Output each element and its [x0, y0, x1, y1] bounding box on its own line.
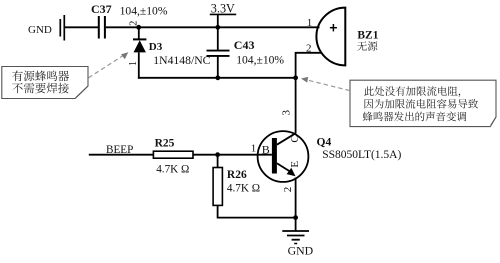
- svg-text:B: B: [262, 143, 270, 157]
- wire emitter vertical: [295, 178, 297, 218]
- wire collector vertical: [295, 78, 297, 134]
- svg-text:1N4148/NC: 1N4148/NC: [153, 54, 210, 67]
- svg-text:Q4: Q4: [317, 137, 332, 149]
- svg-text:GND: GND: [28, 24, 52, 36]
- node emitter/ground junction: [293, 215, 298, 220]
- resistor R25: [153, 151, 193, 158]
- svg-text:4.7K Ω: 4.7K Ω: [156, 163, 189, 175]
- capacitor C37: [99, 16, 105, 39]
- node collector junction: [293, 75, 298, 80]
- svg-text:C37: C37: [91, 2, 112, 16]
- svg-text:2: 2: [128, 21, 139, 26]
- svg-text:R25: R25: [155, 137, 175, 149]
- svg-text:R26: R26: [227, 169, 247, 181]
- capacitor C43: [207, 51, 230, 56]
- callout note left box: [2, 67, 88, 99]
- transistor Q4: [258, 131, 309, 182]
- BZ1 value CJK wu-yuan (passive): [357, 41, 367, 50]
- node 3.3V junction: [215, 25, 220, 30]
- svg-text:4.7K Ω: 4.7K Ω: [227, 183, 260, 195]
- wire middle rail D3 to Q4 collector branch: [138, 77, 296, 79]
- wire buzzer pin 2: [296, 53, 322, 78]
- node R26 junction: [215, 152, 220, 157]
- callout note right box: [350, 80, 496, 126]
- wire BEEP input: [89, 154, 154, 156]
- svg-text:E: E: [289, 161, 301, 168]
- svg-text:C: C: [289, 135, 301, 142]
- svg-text:C43: C43: [234, 38, 255, 52]
- wire GND port to C37: [65, 26, 98, 28]
- wire R26 bottom to emitter rail: [218, 205, 296, 217]
- wire C43 top: [217, 27, 219, 50]
- svg-text:GND: GND: [288, 244, 314, 258]
- resistor R26: [213, 168, 222, 206]
- svg-text:1: 1: [251, 143, 256, 155]
- port GND: [28, 15, 64, 41]
- wire C43 bottom: [217, 56, 219, 78]
- leader arrow right note to collector node: [301, 77, 350, 91]
- svg-text:104,±10%: 104,±10%: [236, 54, 284, 67]
- ground: [282, 218, 309, 244]
- leader arrow left note to D3: [89, 52, 129, 78]
- svg-text:1: 1: [128, 61, 139, 66]
- svg-text:104,±10%: 104,±10%: [120, 4, 168, 17]
- svg-text:SS8050LT(1.5A): SS8050LT(1.5A): [322, 149, 401, 161]
- svg-text:BZ1: BZ1: [357, 29, 378, 41]
- svg-text:2: 2: [282, 187, 294, 193]
- buzzer BZ1: [316, 8, 345, 66]
- callout note right fold: [491, 117, 496, 125]
- wire D3 top: [138, 27, 140, 39]
- wire D3 bottom: [138, 52, 140, 78]
- node C43 bottom junction: [215, 75, 220, 80]
- callout note left fold: [76, 86, 88, 97]
- wire R25 to Q4 base: [193, 154, 272, 156]
- svg-text:3: 3: [280, 110, 292, 116]
- wire top rail C37 to buzzer pin 1: [106, 26, 320, 28]
- svg-text:D3: D3: [149, 41, 163, 53]
- svg-text:3.3V: 3.3V: [211, 1, 235, 15]
- svg-text:1: 1: [307, 17, 313, 29]
- callout note left text: [12, 71, 23, 82]
- node D3 top junction: [136, 25, 141, 30]
- callout note right text: [364, 86, 374, 95]
- svg-text:BEEP: BEEP: [106, 144, 133, 156]
- power 3.3V: [210, 1, 236, 27]
- diode D3: [133, 39, 146, 52]
- wire R26 top: [217, 155, 219, 168]
